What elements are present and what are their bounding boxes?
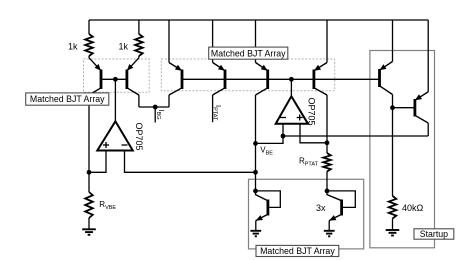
wire QA base-collector loop — [256, 191, 281, 208]
node RPTAT top junction — [325, 140, 330, 145]
node pair1 base junction — [113, 77, 118, 82]
label box matched BJT array middle — [209, 47, 288, 59]
wire Q2 collector down — [138, 95, 140, 107]
power rail (top supply wire) — [89, 19, 428, 21]
op-amp U1 OP705 triangle — [97, 121, 133, 150]
transistor QA (diode-connected NPN) — [256, 191, 268, 230]
node VBE upper junction — [253, 141, 258, 146]
wire U1 plus input to RVBE node — [89, 151, 106, 173]
node QB collector junction — [325, 189, 330, 194]
label op-amp U1 OP705 — [134, 123, 144, 151]
wire startup node to Q8 base — [393, 107, 415, 109]
svg-text:Matched BJT Array: Matched BJT Array — [30, 94, 105, 104]
node VBE lower junction — [253, 170, 258, 175]
resistor RVBE — [85, 192, 93, 230]
svg-text:Matched BJT Array: Matched BJT Array — [260, 246, 335, 256]
transistor Q3 (array PNP) — [169, 63, 182, 96]
transistor Q4 (array PNP) — [213, 63, 225, 96]
op-amp U2 plus input marker — [297, 115, 303, 121]
wire U2 minus input down — [282, 124, 284, 136]
svg-text:3x: 3x — [316, 203, 326, 213]
node array base junction — [289, 77, 294, 82]
label op-amp U2 OP705 — [307, 98, 317, 126]
wire U2 plus input to RPTAT top — [300, 124, 327, 143]
wire Q1-Q2 common base — [101, 78, 127, 80]
wire base junction to op-amp U2 output — [290, 79, 292, 97]
svg-text:VBE: VBE — [260, 145, 273, 156]
op-amp U2 minus input marker — [280, 117, 286, 119]
wire common base rail Q3-Q6 to startup Q7 — [182, 78, 380, 80]
node startup junction — [390, 105, 395, 110]
op-amp U1 minus input marker — [122, 144, 128, 146]
label box matched BJT array left — [26, 93, 109, 105]
op-amp U2 OP705 triangle — [276, 96, 308, 124]
wire U2 minus jog to VBE line — [256, 136, 284, 143]
ground under RVBE — [82, 229, 96, 235]
node IBG junction — [153, 105, 158, 110]
wire Q7 collector down to node — [392, 95, 394, 108]
ground under 40k — [386, 230, 400, 236]
label box matched BJT array bottom — [256, 245, 339, 256]
svg-text:1k: 1k — [68, 42, 78, 52]
transistor Q6 (array PNP) — [314, 63, 327, 96]
label RVBE — [99, 200, 116, 211]
svg-text:Startup: Startup — [420, 229, 448, 239]
svg-text:RVBE: RVBE — [99, 200, 116, 211]
box startup circuit — [370, 51, 435, 248]
label current IPTAT — [212, 105, 223, 121]
wire IBG stub — [154, 107, 156, 123]
label current IBG — [155, 110, 166, 120]
wire Q8 collector down — [427, 123, 429, 136]
wire rail end down to Q8 emitter — [427, 20, 429, 92]
svg-text:OP705: OP705 — [134, 123, 144, 151]
wire startup node down to 40k resistor — [392, 108, 394, 196]
label RPTAT — [299, 157, 319, 168]
wire rail drop to Q7 emitter — [392, 20, 394, 62]
node U2 minus junction — [281, 134, 286, 139]
label VBE — [260, 145, 273, 156]
transistor QB (diode-connected NPN 3x) — [327, 191, 342, 230]
ground under QA — [250, 231, 261, 237]
transistor Q2 (left pair PNP) — [127, 58, 139, 95]
dashed box matched pair 1 — [84, 59, 150, 92]
wire base junction to op-amp U1 output — [114, 79, 116, 122]
wire Q4 collector IPTAT stub — [212, 95, 214, 122]
wire IBG node horizontal — [139, 106, 169, 108]
label 40k value — [402, 203, 424, 213]
resistor R1 1k — [85, 20, 93, 58]
wire rail drop to Q5 emitter — [255, 20, 257, 63]
transistor Q1 (left pair PNP) — [89, 58, 101, 95]
transistor Q8 (startup PNP) — [415, 92, 428, 123]
op-amp U1 plus input marker — [103, 142, 109, 148]
box bottom matched BJT array — [249, 179, 364, 249]
label R1 value 1k — [68, 42, 78, 52]
svg-text:IPTAT: IPTAT — [212, 105, 223, 121]
resistor R40k — [389, 196, 397, 230]
wire rail drop to Q4 emitter — [212, 20, 214, 63]
svg-text:IBG: IBG — [155, 110, 166, 120]
svg-text:Matched BJT Array: Matched BJT Array — [211, 48, 286, 58]
svg-text:1k: 1k — [118, 42, 128, 52]
wire rail drop to Q3 emitter — [168, 20, 170, 63]
svg-text:OP705: OP705 — [307, 98, 317, 126]
wire U2 minus to startup Q8 collector — [283, 135, 428, 137]
transistor Q7 (startup PNP) — [380, 62, 393, 95]
node RVBE top junction — [87, 170, 92, 175]
wire QB base-collector loop — [327, 191, 355, 208]
wire Q6 collector down — [326, 95, 328, 143]
ground under QB — [324, 231, 335, 237]
wire Q5 collector VBE line — [255, 95, 257, 191]
svg-text:40kΩ: 40kΩ — [402, 203, 424, 213]
resistor R2 1k — [135, 20, 143, 58]
svg-text:RPTAT: RPTAT — [299, 157, 319, 168]
label box startup — [414, 229, 454, 239]
dashed box matched BJT array 2 — [161, 59, 334, 91]
transistor Q5 (array PNP) — [256, 63, 268, 96]
node QA collector junction — [253, 189, 258, 194]
wire U1 minus input to VBE node — [125, 151, 256, 173]
wire Q3 collector down — [168, 95, 170, 107]
wire Q1 collector down to RVBE — [88, 95, 90, 192]
label QB multiplier 3x — [316, 203, 326, 213]
label R2 value 1k — [118, 42, 128, 52]
wire rail drop to Q6 emitter — [326, 20, 328, 63]
resistor RPTAT — [323, 143, 331, 191]
